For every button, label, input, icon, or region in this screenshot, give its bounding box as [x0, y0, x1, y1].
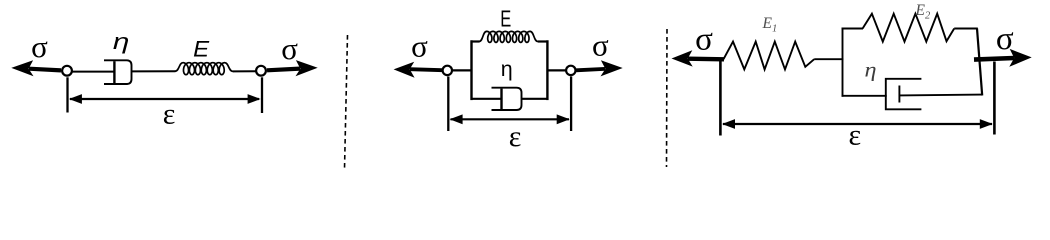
- svg-text:E: E: [193, 37, 210, 62]
- stress arrow right (model 3): [974, 49, 1032, 67]
- strain dimension arrow (model 3): [722, 119, 993, 129]
- extension line right (model 1): [261, 77, 263, 113]
- stress arrow right (model 1): [267, 60, 318, 76]
- svg-text:ε: ε: [848, 119, 861, 152]
- stress arrow right (model 2): [576, 60, 623, 76]
- svg-text:η: η: [865, 59, 877, 81]
- wire: node to dashpot piston rod (model 1): [73, 71, 115, 73]
- node circle left (model 2): [443, 66, 452, 75]
- top branch wire right (model 3): [954, 28, 978, 30]
- strain dimension arrow (model 1): [69, 94, 261, 104]
- stress arrow left (model 1): [11, 60, 61, 76]
- svg-text:η: η: [501, 57, 513, 81]
- svg-text:E: E: [500, 5, 511, 31]
- svg-text:σ: σ: [592, 28, 609, 63]
- bottom branch rod left (model 3): [842, 95, 887, 97]
- extension line left (model 3): [719, 61, 722, 136]
- wire: spring E1 to parallel box (model 3): [814, 58, 843, 60]
- bottom branch wire: dashpot to wall (model 2): [522, 98, 549, 100]
- top branch wire right (model 2): [538, 40, 549, 42]
- separator dashed line 2: [666, 29, 669, 167]
- parallel box left wall (model 3): [842, 28, 844, 97]
- svg-text:σ: σ: [411, 28, 428, 63]
- svg-text:η: η: [113, 29, 130, 54]
- stress arrow left (model 3): [672, 50, 725, 66]
- wire: dashpot to spring (model 1): [132, 70, 176, 72]
- stress arrow left (model 2): [394, 62, 442, 78]
- svg-text:ε: ε: [163, 98, 176, 131]
- svg-text:ε: ε: [509, 120, 522, 153]
- svg-text:σ: σ: [996, 21, 1014, 57]
- extension line right (model 3): [993, 62, 996, 135]
- extension line left (model 1): [66, 77, 68, 112]
- spring E1 zigzag (model 3): [724, 42, 815, 70]
- parallel box right wall (model 2): [546, 40, 548, 100]
- dashpot cylinder (model 2): [492, 88, 522, 110]
- bottom branch rod: piston to right wall (model 3): [899, 94, 982, 97]
- extension line right (model 2): [570, 77, 572, 132]
- spring coil E (model 2): [479, 31, 538, 42]
- wire: box to right node (model 2): [547, 69, 566, 71]
- top branch wire left (model 2): [471, 40, 480, 42]
- svg-text:σ: σ: [695, 22, 713, 58]
- spring E2 zigzag (model 3): [863, 14, 955, 42]
- wire: spring to right node (model 1): [233, 70, 256, 72]
- dashpot piston (model 1): [113, 61, 115, 83]
- node circle right (model 1): [256, 66, 266, 76]
- svg-text:σ: σ: [31, 29, 48, 64]
- bottom branch rod: wall to piston (model 2): [471, 98, 502, 100]
- parallel box right wall slanted (model 3): [977, 29, 982, 96]
- separator dashed line 1: [345, 35, 348, 169]
- dashpot piston (model 2): [500, 89, 502, 110]
- top branch wire left (model 3): [842, 28, 864, 30]
- svg-text:σ: σ: [281, 31, 298, 66]
- parallel box left wall (model 2): [470, 40, 472, 100]
- extension line left (model 2): [447, 77, 449, 132]
- strain dimension arrow (model 2): [450, 114, 570, 124]
- node circle right (model 2): [566, 66, 575, 75]
- dashpot cylinder open-right (model 3): [886, 79, 922, 110]
- spring coil E (model 1): [175, 63, 233, 75]
- dashpot piston (model 3): [898, 86, 900, 103]
- wire: node to box (model 2): [453, 69, 472, 71]
- dashpot cylinder (model 1): [104, 60, 132, 84]
- node circle left (model 1): [62, 66, 72, 76]
